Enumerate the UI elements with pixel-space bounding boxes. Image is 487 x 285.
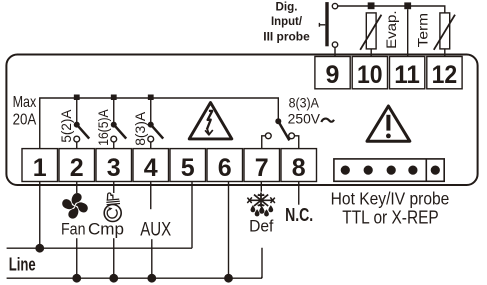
svg-text:Dig.: Dig. [276,0,298,14]
wire terminal 6 to neutral bus [228,182,230,279]
terminal 4 [133,149,169,182]
wire fan to neutral bus [76,238,78,278]
svg-text:3: 3 [107,154,121,182]
wire bus to terminal 11 [407,9,409,56]
wire terminal 5 to line feed [191,182,193,249]
wire terminal 8 stub N.C. [298,182,300,205]
switch SW1 top contact [332,3,337,8]
tilde 250V~ [321,119,334,122]
label Hot Key/IV probe TTL or X-REP [331,188,450,227]
terminal 2 [59,149,95,182]
terminal 8 [281,149,317,182]
switch SW1 actuator [319,23,325,27]
line feed wire [7,247,192,249]
svg-text:6: 6 [218,154,232,182]
svg-text:1: 1 [33,154,47,182]
terminal 6 [207,149,243,182]
svg-text:5(2)A: 5(2)A [59,110,74,143]
hazard triangle W1 lightning [189,103,232,139]
label 8(3)A 250V~ [288,96,320,127]
wire terminal 2 to fan [76,182,78,194]
svg-text:5: 5 [181,154,195,182]
label Dig. Input / III probe [263,0,310,43]
junction compressor neutral [109,274,118,283]
svg-text:III probe: III probe [263,29,310,43]
terminal 3 [96,149,132,182]
junction to Evap probe [368,2,375,9]
terminal 11 [390,57,425,90]
terminal 7 [244,149,280,182]
relay supply bus [40,98,279,149]
svg-text:Evap.: Evap. [383,10,399,49]
terminal 1 [22,149,58,182]
controller outline [6,55,477,186]
defrost icon drops [251,206,273,216]
svg-text:2: 2 [70,154,84,182]
wire RT2 to terminal 12 [444,49,446,57]
hazard triangle W2 exclamation [367,106,410,141]
wire AUX to neutral bus [151,239,153,278]
switch SW1 digital input bar [325,2,328,46]
terminal 9 [315,57,350,90]
svg-text:Def: Def [249,218,274,236]
relay K2 contact [111,99,126,149]
compressor icon [104,193,121,221]
svg-text:4: 4 [144,154,158,182]
connector J1 Hot Key [334,159,444,181]
junction terminal 6 neutral [224,274,233,283]
junction relay K3 [148,95,154,101]
junction terminal 1 line [35,244,44,253]
svg-text:TTL or X-REP: TTL or X-REP [342,207,439,228]
wire terminal 3 to compressor [113,182,115,194]
wire switch to terminal 9 [334,47,336,56]
svg-text:250V: 250V [288,112,320,127]
defrost icon snowflake [247,193,275,207]
relay K1 contact [74,99,89,149]
wire defrost to neutral bus [261,248,262,278]
junction to terminal 11 [404,2,411,9]
svg-text:Cmp: Cmp [88,220,124,238]
fan icon M1 [62,193,88,219]
svg-text:8(3)A: 8(3)A [289,96,319,111]
svg-text:Hot Key/IV probe: Hot Key/IV probe [331,188,450,208]
terminal 5 [170,149,206,182]
svg-text:10: 10 [357,61,383,89]
wire terminal 7 to defrost [260,182,262,192]
svg-text:20A: 20A [13,112,37,129]
svg-text:Input/: Input/ [271,14,303,28]
junction fan neutral [72,274,81,283]
terminal 12 [427,57,462,90]
wire compressor to neutral bus [113,238,115,278]
relay K4 changeover contact [262,118,299,148]
probe bus wire [338,6,445,13]
label Max 20A [13,94,37,129]
svg-text:12: 12 [432,61,458,89]
svg-text:AUX: AUX [140,219,171,240]
switch SW1 bottom contact [332,42,337,47]
wire terminal 4 to AUX [150,182,152,210]
svg-text:8(3)A: 8(3)A [133,112,148,146]
svg-text:Term: Term [415,13,431,48]
neutral bus wire [7,277,262,279]
svg-text:7: 7 [255,154,269,182]
svg-text:9: 9 [326,61,340,89]
thermistor RT1 Evap probe [360,13,381,50]
junction AUX neutral [147,274,156,283]
svg-text:8: 8 [292,154,306,182]
svg-text:Max: Max [13,94,37,111]
svg-text:16(5)A: 16(5)A [96,109,111,145]
terminal 10 [352,57,387,90]
svg-text:N.C.: N.C. [285,205,313,225]
junction relay K1 [74,95,80,101]
svg-text:Line: Line [9,254,36,274]
svg-text:11: 11 [394,61,420,89]
wire terminal 1 to line [39,182,41,249]
relay K3 contact [148,99,163,149]
svg-text:Fan: Fan [61,220,86,238]
thermistor RT2 Term probe [434,13,455,50]
wire RT1 to terminal 10 [370,49,372,57]
junction relay K2 [111,95,117,101]
